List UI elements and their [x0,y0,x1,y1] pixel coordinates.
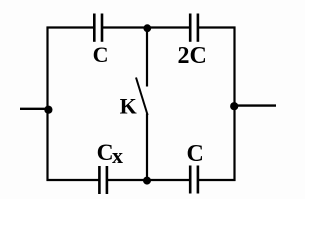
svg-text:2C: 2C [178,43,207,69]
wire: right terminal stub [234,104,276,106]
capacitor 2C (top right) plates [189,14,192,42]
svg-text:C: C [187,141,204,167]
wire: top middle segment [103,26,191,28]
wire: right vertical side [233,27,235,182]
node: right junction [230,102,238,110]
node: left junction [44,106,52,114]
wire: left terminal stub [20,108,49,110]
svg-text:x: x [112,143,123,168]
capacitor Cx (bottom left) plates [98,166,101,194]
svg-text:C: C [93,42,109,67]
capacitor C (bottom right) plates [189,166,192,194]
wire: bottom left segment [47,179,100,181]
switch K blade [136,78,148,116]
wire: bottom middle segment [108,179,191,181]
node: top junction [143,24,151,32]
wire: top right segment [199,26,236,28]
wire: left vertical side [46,27,48,182]
wire: middle branch lower [146,114,148,181]
wire: bottom right segment [199,179,236,181]
wire: middle branch upper [146,28,148,87]
capacitor C (top left) plates [93,14,96,42]
svg-text:K: K [120,94,137,119]
node: bottom junction [143,177,151,185]
wire: top left segment [47,26,95,28]
